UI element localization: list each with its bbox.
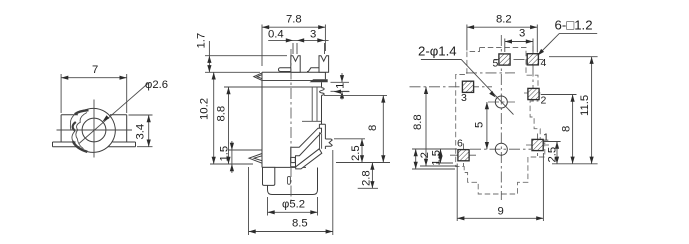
- dashed body outline: [456, 48, 545, 195]
- dim 9 (bottom): [457, 153, 543, 221]
- centerline top hole: [488, 101, 515, 103]
- pad 3: [462, 81, 473, 92]
- dim 5 (hole pitch): [486, 102, 488, 149]
- centerline pad 1: [526, 134, 549, 157]
- centerline pad 2: [524, 92, 543, 94]
- pad 2: [528, 88, 539, 99]
- step notch on right edge: [319, 124, 325, 128]
- svg-text:2: 2: [541, 95, 547, 107]
- svg-text:2: 2: [419, 152, 431, 158]
- dim 11.5 (far right): [549, 57, 598, 164]
- bent contact lower band: [296, 149, 322, 169]
- hole top phi1.4: [495, 96, 507, 108]
- body seam lines: [262, 81, 322, 88]
- centerline vertical: [93, 100, 95, 158]
- dim 8.5 (bottom): [249, 150, 333, 235]
- mounting flange lines: [53, 142, 136, 147]
- svg-text:2.5: 2.5: [350, 145, 362, 161]
- svg-text:7.8: 7.8: [286, 14, 302, 26]
- outer circle: [83, 108, 115, 152]
- svg-text:10.2: 10.2: [199, 98, 211, 120]
- main vertical centerline: [500, 35, 502, 200]
- leg lines between bands: [320, 132, 322, 149]
- centerline pads 4-2 vertical: [532, 46, 534, 103]
- svg-text:1.7: 1.7: [196, 33, 208, 49]
- svg-text:11.5: 11.5: [579, 95, 591, 116]
- crimp square detail: [291, 157, 296, 162]
- pin arm right (chamfered end): [307, 68, 319, 72]
- spring contact waves (left side): [75, 110, 89, 114]
- dim 1 (right upper): [331, 73, 350, 100]
- LEFT VIEW (top view of DC jack): [53, 64, 169, 158]
- dim 8 (right): [324, 95, 390, 162]
- svg-text:5: 5: [474, 122, 486, 128]
- svg-text:6-□1.2: 6-□1.2: [555, 18, 593, 33]
- S-break symbol on right edge: [320, 88, 325, 96]
- svg-text:3.4: 3.4: [135, 124, 147, 140]
- PCB clip lower-left: [249, 154, 262, 164]
- dim 2 (left bottom): [412, 149, 457, 169]
- hole bottom phi1.4: [495, 143, 507, 155]
- svg-text:φ5.2: φ5.2: [282, 199, 305, 211]
- barrel (bottom): [268, 168, 318, 195]
- leader 6-sq1.2: [538, 34, 598, 56]
- svg-text:8: 8: [367, 125, 379, 131]
- top fork pin (left): [291, 56, 300, 73]
- vertical centerline: [290, 49, 292, 200]
- svg-text:3: 3: [461, 92, 467, 104]
- svg-text:1: 1: [335, 83, 347, 89]
- dim 2.5 (right): [334, 139, 365, 163]
- pad 6: [458, 150, 469, 161]
- svg-text:6: 6: [457, 138, 463, 150]
- dim 8.2 (top): [467, 25, 537, 53]
- leader line for phi2.6: [79, 83, 149, 144]
- housing rectangle (occluded by circle): [61, 115, 127, 142]
- centerline pads 5-4: [494, 58, 543, 60]
- svg-text:2-φ1.4: 2-φ1.4: [418, 44, 457, 59]
- svg-text:8.8: 8.8: [412, 114, 424, 130]
- dim 1.7 (left, pin height): [205, 41, 287, 72]
- svg-text:8.2: 8.2: [496, 14, 512, 26]
- svg-text:8.8: 8.8: [216, 106, 228, 122]
- dim 10.2 (left): [210, 72, 253, 164]
- body outline: [262, 72, 325, 167]
- leader 2-phi1.4: [421, 60, 514, 115]
- pad 4: [527, 54, 538, 65]
- dim 2.8 (right bottom): [358, 163, 378, 189]
- RIGHT VIEW (PCB footprint): [410, 14, 598, 222]
- svg-text:1.5: 1.5: [219, 146, 231, 162]
- MIDDLE VIEW (side elevation): [196, 14, 391, 236]
- dim 3 (pads 5-4): [505, 39, 533, 53]
- svg-text:3: 3: [310, 29, 316, 41]
- svg-text:3: 3: [519, 28, 525, 40]
- svg-text:9: 9: [498, 206, 504, 218]
- side contact tab lower-right (forked): [325, 139, 332, 146]
- svg-text:2.5: 2.5: [547, 147, 559, 163]
- svg-text:5: 5: [493, 58, 499, 70]
- centerline pad 3 / 8.8 reference: [410, 86, 493, 88]
- svg-text:2.8: 2.8: [361, 170, 373, 186]
- dim 8.8 (left): [224, 87, 262, 164]
- bent contact upper band with crimp: [291, 128, 322, 167]
- svg-text:0.4: 0.4: [268, 29, 284, 41]
- svg-text:7: 7: [92, 64, 98, 76]
- front pin (bottom-left): [263, 167, 275, 185]
- centerline pad 6: [450, 144, 476, 167]
- inner circle phi2.6: [82, 118, 106, 142]
- dim 7.8 (top): [262, 25, 325, 67]
- pin arm left (rounded end): [278, 68, 290, 72]
- side contact tab upper-right (filled): [310, 79, 328, 82]
- pad 1: [532, 139, 543, 150]
- pad 5: [499, 54, 510, 65]
- slot on barrel: [288, 176, 291, 184]
- dimension 7 (top): [61, 74, 127, 113]
- dim 1.5 (left bottom): [228, 141, 262, 173]
- centerline horizontal: [57, 129, 133, 131]
- hidden leg edges: [302, 87, 322, 121]
- dim 8 (right): [541, 95, 577, 164]
- dimension 3.4 (right): [129, 115, 153, 147]
- dims 0.4 and 3 (pin pitch): [268, 40, 328, 54]
- svg-text:1.5: 1.5: [430, 150, 442, 166]
- dim 1.5 (left bottom): [436, 149, 453, 163]
- svg-text:4: 4: [541, 57, 547, 69]
- dash-dot internal line: [466, 72, 515, 74]
- svg-text:8.5: 8.5: [292, 218, 308, 230]
- PCB clip upper-left: [254, 73, 262, 81]
- centerline bottom hole row: [470, 148, 531, 150]
- dim phi5.2 (barrel): [268, 197, 318, 216]
- svg-text:φ2.6: φ2.6: [145, 79, 168, 91]
- svg-text:8: 8: [561, 126, 573, 132]
- top fork pin (right): [319, 56, 329, 73]
- dim 2.5 (right of pad 1): [544, 142, 561, 164]
- dim 8.8 (left): [420, 87, 457, 166]
